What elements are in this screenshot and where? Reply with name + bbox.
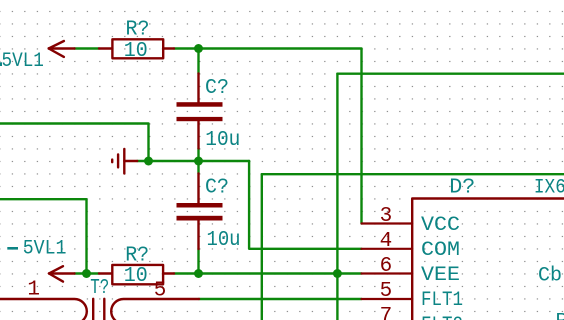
svg-text:5VL1: 5VL1 [2, 50, 44, 73]
wire transformer to FLT1 pin [199, 298, 362, 300]
junction C2 bottom [194, 269, 203, 278]
pin 5 FLT1 line [362, 298, 413, 300]
svg-text:IX6611: IX6611 [534, 177, 564, 200]
wire left edge to ground node [0, 124, 149, 162]
wire junction to C1 top [197, 49, 199, 74]
pin 4 COM line [362, 248, 413, 250]
junction ground left [144, 157, 153, 166]
wire C1 bottom to C2 top [197, 149, 199, 174]
svg-text:T?: T? [90, 277, 109, 300]
resistor R1 body [112, 39, 163, 58]
capacitor C2 leads [197, 174, 199, 250]
wire vertical x261 [261, 174, 263, 320]
hierarchical label arrow -5VL1 [49, 266, 75, 281]
svg-text:C?: C? [205, 76, 229, 100]
svg-text:4: 4 [380, 230, 393, 253]
svg-text:1: 1 [27, 279, 40, 302]
svg-text:10: 10 [124, 40, 148, 63]
transformer T1 core bars [93, 299, 104, 320]
wire horizontal upper right [337, 72, 564, 74]
svg-text:FLT1: FLT1 [421, 289, 463, 312]
svg-text:Cb: Cb [538, 265, 562, 288]
capacitor C2 plates [177, 203, 223, 208]
svg-text:COM: COM [421, 239, 460, 262]
svg-text:10u: 10u [207, 229, 241, 252]
wire vertical x337 [336, 74, 338, 320]
svg-text:Rb: Rb [556, 311, 564, 320]
node label -5VL1 [7, 238, 66, 261]
junction lower label node [82, 269, 91, 278]
hierarchical label arrow +2.5VL1 [49, 41, 75, 57]
svg-text:10u: 10u [205, 129, 240, 152]
IC U1 box outline [412, 199, 564, 320]
wire ground row [137, 160, 249, 162]
svg-text:5: 5 [154, 280, 167, 303]
pin 3 VCC line [362, 222, 413, 224]
svg-text:C?: C? [205, 176, 229, 200]
svg-text:FLT2: FLT2 [421, 314, 463, 320]
pin 6 VEE line [362, 272, 413, 274]
transformer T1 right winding [111, 299, 199, 320]
wire ground to COM pin [249, 161, 361, 249]
junction VEE row x336 [333, 269, 342, 278]
svg-text:5VL1: 5VL1 [23, 238, 67, 261]
wire D row horizontal [262, 173, 564, 175]
resistor R2 leads [99, 272, 174, 274]
capacitor C1 leads [197, 74, 199, 149]
svg-text:VEE: VEE [421, 264, 460, 287]
svg-text:6: 6 [380, 255, 393, 278]
svg-text:3: 3 [380, 205, 393, 228]
resistor R1 leads [99, 47, 174, 49]
resistor R2 body [112, 265, 163, 284]
wire left edge to lower label node [0, 199, 87, 273]
wire C2 bottom [197, 249, 199, 274]
wire lower label to R2 [75, 272, 100, 274]
junction ground right [194, 157, 203, 166]
capacitor C1 plates [177, 102, 223, 107]
junction top at R1 output [194, 44, 203, 53]
node label 2.5VL1 [0, 50, 44, 73]
svg-text:R?: R? [126, 18, 150, 42]
transformer T1 left winding [0, 299, 87, 320]
ground symbol [112, 149, 137, 174]
wire R1 to VCC pin [174, 49, 362, 224]
svg-text:7: 7 [380, 305, 393, 320]
svg-text:10: 10 [124, 265, 148, 288]
wire R2 to VEE pin [174, 272, 362, 274]
wire top label to R1 [75, 47, 100, 49]
svg-text:5: 5 [380, 280, 393, 303]
svg-text:D?: D? [449, 176, 475, 200]
svg-text:VCC: VCC [421, 214, 460, 237]
